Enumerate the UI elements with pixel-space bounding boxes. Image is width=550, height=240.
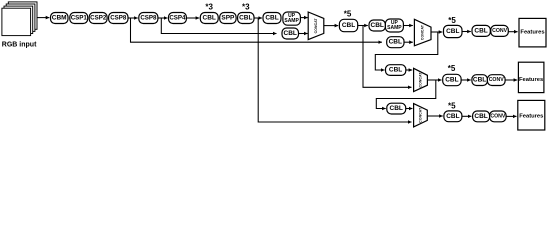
block Features bottom [518, 100, 545, 130]
arrow CSP8 to CSP8 [128, 17, 138, 19]
arrow CBL P4 to concat1 [299, 33, 308, 35]
block CONV head middle [487, 75, 505, 86]
svg-text:CBL: CBL [389, 67, 402, 74]
svg-text:*3: *3 [205, 3, 213, 12]
svg-text:SPP: SPP [221, 15, 235, 22]
block CONV head top [491, 25, 509, 36]
svg-text:CBL: CBL [371, 22, 384, 29]
svg-text:CBL: CBL [474, 113, 487, 120]
svg-text:Features: Features [519, 113, 543, 119]
svg-text:CONV: CONV [489, 77, 505, 83]
svg-text:CBL: CBL [473, 77, 486, 84]
arrow concat4 to CBL x5 bottom [427, 115, 442, 117]
block CBL backbone1 [200, 13, 218, 24]
arrow concat1 to CBL x5 [324, 25, 338, 27]
arrow CBL P3 to concat2 [404, 41, 413, 43]
arrow CBL x5 top to CBL [462, 31, 471, 33]
block CBL x5 first [339, 19, 357, 31]
arrow conv to features middle [505, 79, 517, 81]
arrow concat3 to CBL x5 mid [427, 79, 441, 81]
block CBL x5 top [444, 25, 463, 37]
svg-text:CONV: CONV [490, 113, 506, 119]
svg-text:Features: Features [520, 30, 544, 36]
block CSP1 [70, 13, 88, 24]
block CSP4 [169, 13, 187, 24]
svg-text:Features: Features [519, 77, 543, 83]
svg-text:CONCAT: CONCAT [419, 72, 423, 88]
block CBL backbone2 [238, 13, 254, 24]
arrow CBL x5 to CBL [358, 25, 368, 27]
block CBL x5 middle [443, 74, 461, 85]
svg-text:*5: *5 [344, 9, 352, 18]
wire concat3 output down to downsample CBL 2 [376, 80, 436, 109]
block CSP2 [89, 13, 107, 24]
block CBL branch P3 [387, 37, 404, 48]
svg-text:CSP4: CSP4 [169, 15, 186, 22]
arrow conv to features bottom [506, 115, 516, 117]
arrow CBL x5 mid to CBL [461, 79, 471, 81]
block CONV head bottom [490, 111, 507, 122]
arrow upsample2 to concat2 [403, 25, 412, 27]
block CBL head middle [472, 75, 488, 86]
arrow input to CBM [37, 17, 49, 19]
block CSP8 second [139, 13, 158, 24]
svg-text:CONCAT: CONCAT [421, 24, 425, 40]
svg-text:RGB input: RGB input [2, 42, 37, 49]
concat 2 [414, 19, 431, 46]
svg-text:CBL: CBL [389, 39, 402, 46]
wire CBL x5 output down to concat3 [363, 26, 412, 88]
svg-text:SAMP: SAMP [284, 18, 299, 24]
block upsample 2 [385, 19, 403, 32]
block Features middle [518, 62, 544, 92]
arrow CSP8 to CSP4 [158, 17, 168, 19]
block CBM [51, 13, 69, 24]
wire CSP8 first branch down to P3 CBL [131, 18, 382, 42]
svg-text:CBL: CBL [265, 15, 278, 22]
block CBL downsample 1 [386, 65, 406, 76]
svg-text:CSP2: CSP2 [90, 15, 107, 22]
svg-text:*5: *5 [448, 16, 456, 25]
svg-text:CBL: CBL [284, 30, 297, 37]
svg-text:*5: *5 [448, 64, 456, 73]
arrow CBL ds2 to concat4 [406, 108, 413, 110]
svg-text:CBL: CBL [390, 105, 403, 112]
arrow concat2 to CBL x5 top [431, 31, 442, 33]
svg-text:SAMP: SAMP [387, 25, 402, 31]
wire CSP8 second branch down to P4 CBL [161, 18, 276, 34]
concat 4 [414, 104, 428, 127]
arrow CSP4 to CBL [186, 17, 199, 19]
svg-text:CBL: CBL [474, 27, 487, 34]
svg-text:CBL: CBL [446, 113, 459, 120]
svg-text:CBM: CBM [52, 15, 67, 22]
svg-text:CSP8: CSP8 [140, 15, 157, 22]
svg-text:CBL: CBL [445, 77, 458, 84]
block CBL before upsample2 [369, 20, 385, 31]
block CBL head top [472, 25, 490, 36]
block CBL head bottom [473, 111, 490, 122]
svg-text:CBL: CBL [342, 22, 355, 29]
arrow conv to features top [508, 31, 517, 33]
svg-text:*3: *3 [242, 3, 250, 12]
svg-text:CBL: CBL [239, 15, 252, 22]
wire P5 branch down to concat 4 [258, 18, 411, 122]
svg-text:CONCAT: CONCAT [314, 17, 318, 33]
block CSP8 first [109, 13, 128, 24]
svg-text:CBL: CBL [203, 15, 216, 22]
arrow SPP-CBL to CBL [254, 17, 262, 19]
svg-text:CSP1: CSP1 [71, 15, 88, 22]
arrow CBL x5 bottom to CBL [462, 115, 472, 117]
arrow upsample1 to concat1 [300, 17, 307, 19]
arrow CBL ds1 to concat3 [406, 69, 412, 71]
concat 1 [308, 12, 324, 40]
svg-text:CSP8: CSP8 [110, 15, 127, 22]
input image stack [2, 2, 37, 36]
svg-text:CONCAT: CONCAT [419, 107, 423, 123]
svg-text:*5: *5 [448, 101, 456, 110]
block CBL downsample 2 [387, 103, 406, 114]
block CBL neck top [263, 13, 281, 24]
block CBL x5 bottom [444, 111, 462, 122]
svg-text:CONV: CONV [492, 28, 508, 34]
svg-text:CBL: CBL [446, 28, 459, 35]
block Features top [519, 18, 546, 47]
block CBL branch P4 [282, 28, 299, 39]
block SPP [220, 13, 236, 24]
block upsample 1 [283, 12, 301, 25]
concat 3 [414, 68, 428, 91]
wire concat2 output down to downsample CBL 1 [375, 32, 438, 70]
